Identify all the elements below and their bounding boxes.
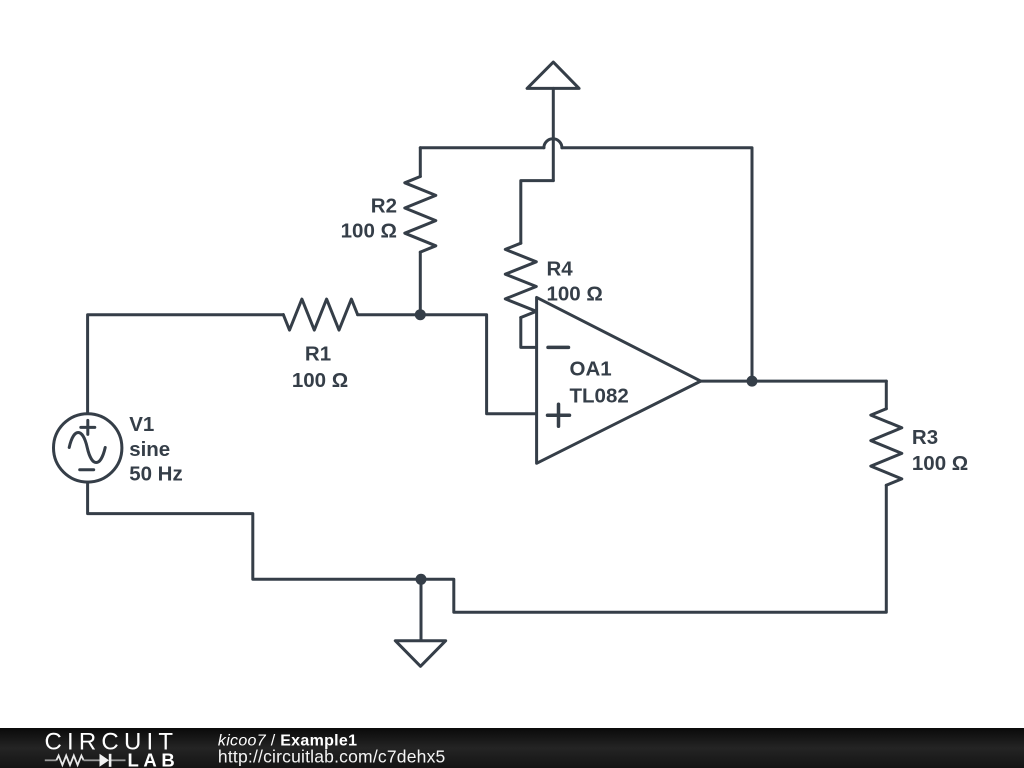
footer bar [0, 728, 1024, 768]
op-amp U1 OA1 [537, 297, 701, 463]
svg-text:R2: R2 [371, 195, 397, 218]
wire ground junction to bottom net [421, 485, 886, 612]
wire V1 bottom to ground junction [88, 482, 421, 579]
node junction dot output net [747, 376, 758, 387]
svg-text:100 Ω: 100 Ω [341, 220, 397, 243]
wire R4 bottom to op-amp inverting input [521, 318, 537, 348]
svg-text:R4: R4 [547, 257, 574, 280]
svg-text:100 Ω: 100 Ω [912, 452, 968, 475]
ground symbol [395, 579, 445, 666]
resistor R4 [505, 243, 536, 317]
svg-text:OA1: OA1 [570, 357, 612, 380]
svg-text:R3: R3 [912, 426, 938, 449]
resistor R1 [283, 299, 357, 330]
wire V1 top to R1 [88, 315, 284, 414]
wire R1 to node A junction [358, 313, 421, 316]
resistor R3 [871, 381, 902, 485]
power supply symbol VCC [527, 62, 579, 181]
svg-text:50 Hz: 50 Hz [129, 463, 183, 486]
svg-text:sine: sine [129, 438, 170, 461]
resistor R2 [405, 148, 436, 315]
logo resistor-diode glyph [45, 756, 126, 766]
wire from power stem to R4 top [521, 181, 554, 244]
svg-text:R1: R1 [305, 343, 331, 366]
svg-text:V1: V1 [129, 413, 154, 436]
svg-text:100 Ω: 100 Ω [292, 369, 348, 392]
svg-text:TL082: TL082 [570, 385, 629, 408]
voltage source V1 [53, 414, 121, 482]
node junction dot ground net [416, 574, 427, 585]
wire top net from R2 to feedback corner with hop [420, 139, 752, 381]
svg-text:100 Ω: 100 Ω [547, 283, 603, 306]
svg-text:LAB: LAB [128, 750, 180, 768]
wire op-amp output to R3 top [701, 380, 887, 383]
wire node A to op-amp non-inverting input [420, 315, 536, 414]
svg-text:http://circuitlab.com/c7dehx5: http://circuitlab.com/c7dehx5 [218, 746, 446, 766]
node junction dot R1/R2 [415, 309, 426, 320]
